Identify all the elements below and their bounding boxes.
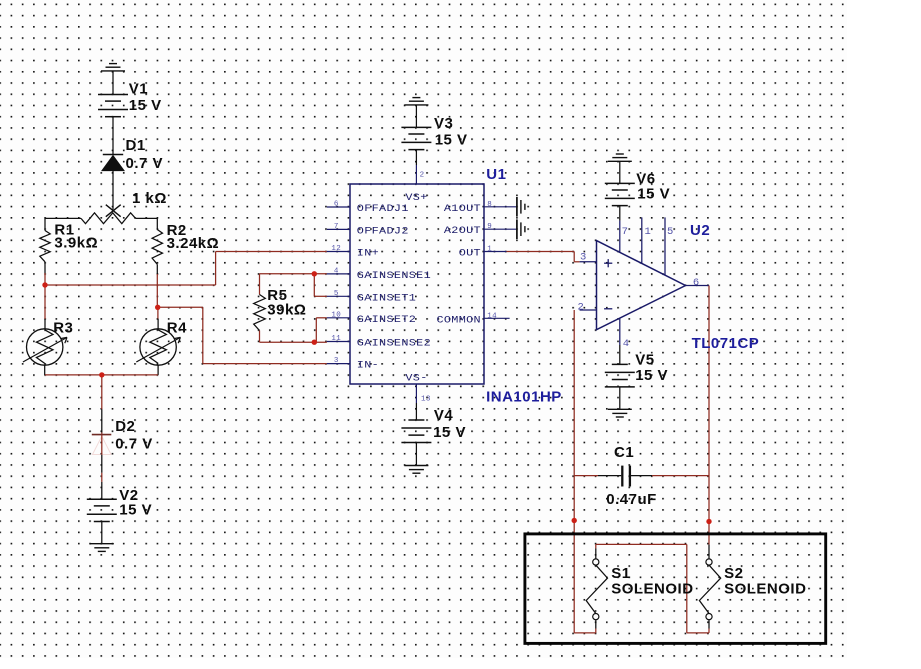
svg-text:0.7 V: 0.7 V — [126, 155, 164, 172]
svg-text:0.7 V: 0.7 V — [115, 436, 153, 453]
svg-text:IN+: IN+ — [357, 248, 379, 259]
svg-text:7: 7 — [334, 223, 339, 231]
svg-text:14: 14 — [487, 312, 497, 320]
svg-text:S2: S2 — [724, 565, 743, 582]
svg-text:2: 2 — [420, 172, 425, 180]
svg-text:5: 5 — [667, 226, 674, 238]
svg-text:15 V: 15 V — [119, 502, 152, 519]
svg-text:COMMON: COMMON — [436, 315, 481, 326]
svg-text:R3: R3 — [53, 319, 73, 336]
svg-text:VS+: VS+ — [405, 193, 427, 204]
svg-text:OFFADJ2: OFFADJ2 — [357, 226, 409, 237]
svg-text:8: 8 — [487, 201, 492, 209]
svg-text:V3: V3 — [434, 115, 453, 132]
svg-text:VS-: VS- — [405, 373, 427, 384]
svg-text:15 V: 15 V — [129, 97, 162, 114]
svg-text:0.47uF: 0.47uF — [606, 491, 657, 508]
svg-text:3: 3 — [334, 357, 339, 365]
svg-text:D2: D2 — [115, 418, 135, 435]
svg-text:3: 3 — [580, 252, 587, 264]
svg-text:9: 9 — [487, 223, 492, 231]
svg-text:3.24kΩ: 3.24kΩ — [167, 235, 220, 252]
svg-text:4: 4 — [623, 338, 630, 350]
svg-text:OUT: OUT — [459, 248, 481, 259]
svg-text:6: 6 — [334, 201, 339, 209]
svg-text:IN-: IN- — [357, 360, 379, 371]
svg-text:U2: U2 — [690, 222, 710, 239]
svg-text:15 V: 15 V — [433, 424, 466, 441]
svg-text:A1OUT: A1OUT — [444, 203, 481, 214]
svg-text:INA101HP: INA101HP — [486, 389, 562, 406]
svg-text:7: 7 — [622, 226, 629, 238]
svg-text:39kΩ: 39kΩ — [267, 301, 306, 318]
svg-text:R4: R4 — [167, 319, 187, 336]
svg-text:3.9kΩ: 3.9kΩ — [54, 235, 98, 252]
svg-text:6: 6 — [693, 277, 700, 289]
svg-text:13: 13 — [421, 396, 431, 404]
svg-text:SOLENOID: SOLENOID — [611, 581, 693, 598]
svg-text:A2OUT: A2OUT — [444, 226, 481, 237]
svg-text:GAINSENSE1: GAINSENSE1 — [357, 270, 431, 281]
svg-text:2: 2 — [578, 301, 585, 313]
svg-text:1 kΩ: 1 kΩ — [132, 190, 167, 207]
svg-text:11: 11 — [331, 335, 341, 343]
svg-text:1: 1 — [645, 226, 652, 238]
svg-text:12: 12 — [331, 245, 341, 253]
svg-text:15 V: 15 V — [435, 131, 468, 148]
svg-text:15 V: 15 V — [637, 186, 670, 203]
svg-text:15 V: 15 V — [635, 367, 668, 384]
svg-text:OFFADJ1: OFFADJ1 — [357, 204, 409, 215]
svg-text:C1: C1 — [614, 444, 634, 461]
svg-text:U1: U1 — [486, 166, 506, 183]
svg-text:5: 5 — [334, 290, 339, 298]
svg-text:10: 10 — [331, 311, 341, 319]
svg-text:S1: S1 — [611, 565, 630, 582]
svg-text:GAINSENSE2: GAINSENSE2 — [357, 338, 431, 349]
svg-text:V5: V5 — [635, 351, 654, 368]
svg-text:TL071CP: TL071CP — [692, 335, 760, 352]
svg-text:D1: D1 — [126, 137, 146, 154]
svg-text:V4: V4 — [434, 407, 454, 424]
svg-text:SOLENOID: SOLENOID — [724, 581, 806, 598]
svg-text:GAINSET2: GAINSET2 — [357, 314, 416, 325]
svg-text:1: 1 — [487, 246, 492, 254]
svg-text:GAINSET1: GAINSET1 — [357, 293, 416, 304]
svg-text:V1: V1 — [129, 81, 148, 98]
svg-text:4: 4 — [334, 267, 339, 275]
